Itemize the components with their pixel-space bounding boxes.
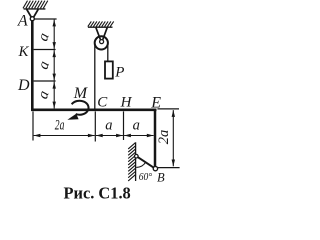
pulley wheel [95, 36, 108, 49]
svg-text:Рис. С1.8: Рис. С1.8 [64, 184, 131, 202]
svg-text:B: B [157, 170, 165, 184]
svg-text:C: C [97, 95, 108, 111]
pin bracket at A [27, 9, 32, 17]
left dimension line K-D [53, 50, 55, 80]
pulley pin [100, 40, 104, 44]
svg-text:H: H [120, 95, 133, 111]
ceiling line at A [24, 8, 46, 10]
wall hatch at B [128, 143, 135, 181]
60 degree arc [136, 162, 146, 167]
bar E-B [154, 110, 157, 167]
bar A-corner-E (L shape) [32, 21, 156, 110]
support rod B [138, 157, 154, 167]
pin B [153, 166, 157, 170]
left dimension line A-K [53, 20, 55, 49]
pulley bracket [96, 28, 101, 40]
tick at K [34, 49, 56, 51]
svg-text:M: M [73, 85, 89, 102]
weight P box [105, 61, 113, 78]
wall line at B [135, 142, 137, 181]
extension line below corner [32, 111, 34, 140]
bottom dimension line a (H-E) [124, 135, 154, 137]
tick at D [34, 80, 56, 82]
pulley ceiling hatch [88, 21, 114, 26]
pin A [30, 17, 34, 21]
moment M arc [72, 101, 89, 115]
svg-text:2a: 2a [156, 130, 172, 145]
svg-text:E: E [150, 94, 161, 111]
svg-text:A: A [17, 13, 28, 30]
svg-text:a: a [105, 117, 112, 133]
rope left (to C) [94, 42, 96, 109]
svg-text:P: P [114, 65, 124, 81]
svg-text:D: D [17, 77, 30, 94]
right top tick at E [157, 108, 179, 110]
tick at A [34, 18, 56, 20]
wall pin [135, 154, 139, 158]
bottom dimension line 2a [34, 135, 95, 137]
left dimension line D-corner [53, 82, 55, 109]
pulley ceiling line [88, 26, 113, 28]
bottom dimension line a (C-H) [96, 135, 123, 137]
right dimension line 2a [172, 110, 174, 166]
svg-text:K: K [18, 44, 30, 60]
extension line below H [123, 111, 125, 140]
rope right (to P) [107, 42, 109, 61]
ceiling hatch at A [23, 1, 48, 9]
arrows left column [53, 20, 56, 109]
right bottom tick at B [158, 167, 180, 169]
svg-text:a: a [133, 117, 140, 133]
svg-text:2a: 2a [55, 118, 65, 134]
extension line below C [94, 111, 96, 141]
svg-text:60°: 60° [139, 172, 152, 183]
